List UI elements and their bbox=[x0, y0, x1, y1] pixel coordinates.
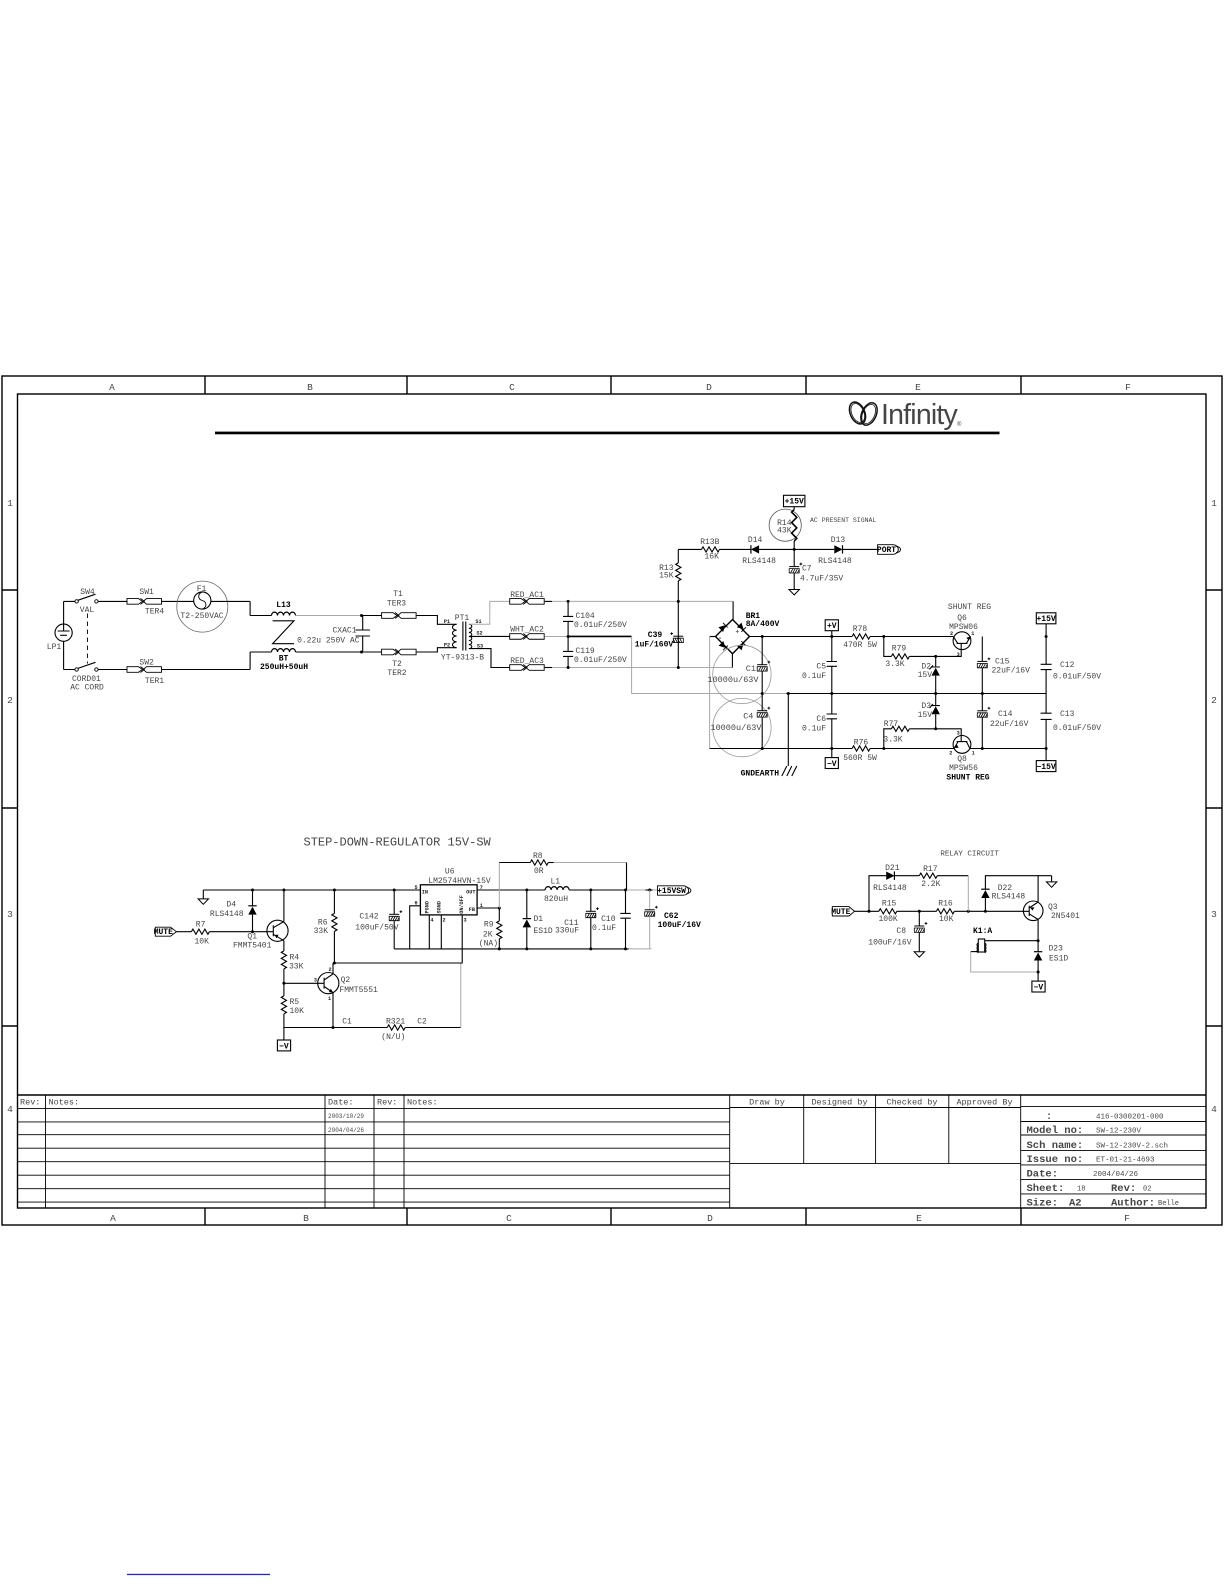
svg-text:Author:: Author: bbox=[1111, 1198, 1155, 1210]
svg-text:L1: L1 bbox=[550, 878, 560, 887]
svg-text:SW1: SW1 bbox=[139, 588, 154, 597]
svg-text:TER3: TER3 bbox=[387, 600, 406, 609]
diode D22 bbox=[981, 876, 1051, 912]
svg-text:R17: R17 bbox=[923, 865, 938, 874]
svg-text:D13: D13 bbox=[831, 536, 846, 545]
svg-text:Rev:: Rev: bbox=[20, 1098, 40, 1108]
svg-text:D14: D14 bbox=[748, 536, 763, 545]
svg-text:P1: P1 bbox=[444, 619, 450, 625]
svg-text:MUTE: MUTE bbox=[831, 908, 850, 917]
svg-text:MUTE: MUTE bbox=[154, 928, 173, 937]
svg-text:D2: D2 bbox=[921, 662, 931, 671]
svg-text:2: 2 bbox=[328, 967, 331, 973]
node D4 anode / R7 junction bbox=[251, 930, 254, 933]
column letters top bbox=[109, 382, 1131, 393]
svg-text:0.01uF/250V: 0.01uF/250V bbox=[574, 621, 627, 630]
IC U6 bbox=[414, 868, 490, 924]
svg-text:+: + bbox=[736, 629, 740, 636]
svg-text:(N/U): (N/U) bbox=[381, 1033, 405, 1042]
svg-text:Q2: Q2 bbox=[341, 976, 351, 985]
bridge BR1 bbox=[716, 612, 780, 654]
svg-text:3: 3 bbox=[957, 652, 960, 658]
svg-text:4: 4 bbox=[430, 918, 433, 924]
capacitor C39 bbox=[635, 631, 684, 650]
svg-text:3.3K: 3.3K bbox=[883, 736, 902, 745]
svg-text:B: B bbox=[307, 382, 313, 393]
terminal SW1 bbox=[127, 588, 164, 616]
transistor Q6 bbox=[936, 603, 992, 658]
ground bbox=[789, 590, 799, 595]
diode D21 bbox=[873, 864, 919, 893]
capacitor C11 bbox=[555, 890, 599, 949]
svg-text:16K: 16K bbox=[704, 552, 719, 561]
svg-text:2003/10/29: 2003/10/29 bbox=[328, 1113, 364, 1120]
bottom rail C1/C2 bbox=[284, 1027, 387, 1029]
svg-text:R7: R7 bbox=[196, 921, 206, 930]
svg-text:22uF/16V: 22uF/16V bbox=[990, 720, 1029, 729]
wire S1 tap bbox=[469, 601, 510, 624]
capacitor C14 bbox=[977, 694, 1028, 749]
svg-text:Date:: Date: bbox=[1027, 1169, 1059, 1181]
svg-text:Q3: Q3 bbox=[1048, 903, 1058, 912]
wire S2 tap bbox=[471, 635, 510, 637]
svg-text:+15V: +15V bbox=[785, 498, 804, 507]
port PORT flag bbox=[877, 545, 901, 555]
gnd return line bbox=[394, 948, 629, 950]
svg-text:0.22u 250V AC: 0.22u 250V AC bbox=[297, 637, 360, 646]
diode D14 bbox=[720, 536, 795, 566]
wire S3 tap bbox=[469, 649, 510, 668]
svg-text:®: ® bbox=[957, 421, 962, 428]
svg-text:2004/04/26: 2004/04/26 bbox=[1093, 1171, 1139, 1179]
wire ON/OFF net bbox=[334, 915, 462, 963]
svg-text:C1: C1 bbox=[342, 1018, 352, 1027]
wire FB net bbox=[477, 907, 499, 909]
svg-text:-: - bbox=[718, 635, 722, 643]
svg-text:R79: R79 bbox=[892, 644, 907, 653]
svg-text:U6: U6 bbox=[445, 868, 455, 877]
svg-text:RLS4148: RLS4148 bbox=[873, 884, 907, 893]
left row divider ticks bbox=[2, 590, 18, 1026]
svg-text:TER4: TER4 bbox=[145, 608, 164, 617]
svg-text:R4: R4 bbox=[290, 954, 300, 963]
svg-text:TER2: TER2 bbox=[387, 669, 406, 678]
choke core Z bbox=[273, 621, 294, 644]
svg-text:3: 3 bbox=[957, 731, 960, 737]
svg-text:100uF/16V: 100uF/16V bbox=[658, 921, 701, 930]
resistor R13 bbox=[659, 549, 681, 581]
svg-text:C7: C7 bbox=[802, 565, 812, 574]
svg-text:RED_AC3: RED_AC3 bbox=[510, 657, 544, 666]
svg-text:IN: IN bbox=[422, 889, 428, 895]
svg-text:VAL: VAL bbox=[80, 606, 95, 615]
svg-text:SW4: SW4 bbox=[80, 588, 95, 597]
svg-text:D: D bbox=[707, 1213, 713, 1224]
svg-text:Checked by: Checked by bbox=[886, 1098, 937, 1108]
resistor R7 bbox=[176, 921, 267, 947]
svg-text:Rev:: Rev: bbox=[377, 1098, 397, 1108]
title block info box bbox=[1021, 1106, 1206, 1209]
svg-text:SW2: SW2 bbox=[139, 659, 154, 668]
svg-text:2: 2 bbox=[949, 751, 952, 757]
gang dashed link bbox=[87, 614, 89, 664]
capacitor C13 bbox=[1041, 694, 1102, 749]
capacitor C10 bbox=[592, 890, 631, 949]
svg-text:OUT: OUT bbox=[466, 889, 475, 895]
resistor R76 bbox=[843, 739, 877, 763]
svg-text:RLS4148: RLS4148 bbox=[210, 910, 244, 919]
svg-text:STEP-DOWN-REGULATOR 15V-SW: STEP-DOWN-REGULATOR 15V-SW bbox=[304, 836, 492, 850]
wire AC3 rail bbox=[545, 667, 552, 669]
svg-text:C39: C39 bbox=[648, 631, 663, 640]
svg-text:F1: F1 bbox=[197, 585, 207, 594]
svg-text:15V: 15V bbox=[918, 711, 933, 720]
svg-text:560R 5W: 560R 5W bbox=[843, 754, 877, 763]
svg-text:P2: P2 bbox=[444, 643, 450, 649]
svg-text:−V: −V bbox=[279, 1042, 289, 1051]
svg-text:2: 2 bbox=[7, 695, 13, 706]
capacitor C12 bbox=[1041, 637, 1102, 694]
svg-text:R5: R5 bbox=[290, 998, 300, 1007]
svg-text:0.01uF/250V: 0.01uF/250V bbox=[574, 656, 627, 665]
svg-text:18: 18 bbox=[1077, 1186, 1085, 1194]
svg-text:Belle: Belle bbox=[1158, 1200, 1179, 1208]
capacitor C5 bbox=[802, 637, 837, 694]
resistor R77 bbox=[883, 720, 935, 748]
diode D23 bbox=[1034, 941, 1069, 981]
svg-text:C10: C10 bbox=[601, 915, 616, 924]
capacitor C104 bbox=[563, 600, 627, 637]
svg-text:FMMT5551: FMMT5551 bbox=[339, 986, 378, 995]
resistor R79 bbox=[884, 637, 936, 669]
wire AC1 rail bbox=[545, 600, 552, 602]
svg-text:+15V: +15V bbox=[1036, 615, 1055, 624]
column letters bottom bbox=[110, 1213, 1130, 1224]
transistor Q8 bbox=[936, 729, 990, 783]
svg-text::: : bbox=[1046, 1112, 1052, 1123]
svg-text:−V: −V bbox=[827, 760, 837, 769]
svg-text:MPSW06: MPSW06 bbox=[949, 623, 978, 632]
svg-text:LP1: LP1 bbox=[47, 643, 62, 652]
outer frame rect bbox=[2, 376, 1222, 1225]
row numbers right bbox=[1211, 498, 1217, 1115]
svg-text:3: 3 bbox=[7, 909, 13, 920]
svg-text:D23: D23 bbox=[1049, 945, 1064, 954]
terminal T1 bbox=[382, 590, 417, 619]
ground arrow relay bbox=[1046, 876, 1056, 888]
wire F1 right bbox=[211, 601, 272, 615]
svg-text:10K: 10K bbox=[939, 915, 954, 924]
zener D3 bbox=[918, 694, 940, 731]
resistor R17 bbox=[919, 865, 968, 889]
power box +V bbox=[825, 620, 838, 637]
+V rail bbox=[750, 636, 954, 638]
svg-text:PT1: PT1 bbox=[455, 614, 470, 623]
svg-text:ES1D: ES1D bbox=[534, 927, 553, 936]
resistor R9 bbox=[479, 908, 502, 949]
svg-text:F: F bbox=[1125, 382, 1131, 393]
svg-text:ON/OFF: ON/OFF bbox=[459, 895, 465, 914]
svg-text:Sheet:: Sheet: bbox=[1027, 1183, 1065, 1195]
power box -15V bbox=[1036, 747, 1056, 772]
svg-text:8A/400V: 8A/400V bbox=[746, 620, 780, 629]
svg-text:0.1uF: 0.1uF bbox=[802, 725, 826, 734]
svg-text:15V: 15V bbox=[918, 671, 933, 680]
svg-text:R77: R77 bbox=[884, 720, 899, 729]
svg-text:C4: C4 bbox=[743, 712, 753, 722]
svg-text:Model no:: Model no: bbox=[1027, 1125, 1084, 1137]
relay coil K1:A bbox=[973, 927, 992, 953]
top rail bbox=[203, 889, 420, 891]
wire to Q2 base bbox=[284, 982, 318, 984]
capacitor C6 bbox=[802, 694, 837, 749]
thick rule under logo bbox=[215, 432, 1000, 435]
svg-text:PORT: PORT bbox=[877, 546, 896, 555]
zener D2 bbox=[918, 655, 940, 694]
switch CORD01 bbox=[70, 662, 104, 692]
svg-text:A2: A2 bbox=[1069, 1198, 1082, 1210]
svg-text:5: 5 bbox=[414, 885, 417, 891]
svg-text:R78: R78 bbox=[853, 625, 868, 634]
svg-text:10000u/63V: 10000u/63V bbox=[710, 723, 762, 733]
svg-text:1: 1 bbox=[972, 751, 975, 757]
svg-text:1: 1 bbox=[7, 498, 13, 509]
inductor L1 bbox=[544, 878, 569, 904]
svg-text:C5: C5 bbox=[816, 663, 826, 672]
svg-text:Q6: Q6 bbox=[957, 614, 967, 623]
svg-text:Issue no:: Issue no: bbox=[1027, 1154, 1084, 1166]
wire mute line bbox=[855, 910, 1024, 912]
wire bridge minus leg bbox=[710, 636, 716, 638]
wire L13 to T1 bbox=[296, 615, 362, 617]
svg-text:SW-12-230V: SW-12-230V bbox=[1096, 1128, 1142, 1136]
svg-text:FMMT5401: FMMT5401 bbox=[233, 942, 272, 951]
svg-text:−V: −V bbox=[1034, 983, 1044, 992]
wire AC2 bbox=[545, 635, 568, 637]
svg-text:B: B bbox=[303, 1213, 309, 1224]
svg-text:2K: 2K bbox=[483, 930, 493, 939]
Infinity logo mark bbox=[846, 400, 880, 428]
svg-text:2004/04/26: 2004/04/26 bbox=[328, 1127, 364, 1134]
svg-text:TER1: TER1 bbox=[145, 677, 164, 686]
svg-text:2: 2 bbox=[442, 918, 445, 924]
svg-text:SHUNT REG: SHUNT REG bbox=[948, 603, 991, 612]
svg-text:250uH+50uH: 250uH+50uH bbox=[260, 663, 308, 672]
svg-text:33K: 33K bbox=[314, 927, 329, 936]
svg-text:470R 5W: 470R 5W bbox=[843, 641, 877, 650]
terminal T2 bbox=[382, 649, 417, 678]
svg-text:GNDEARTH: GNDEARTH bbox=[741, 770, 780, 779]
wire AC1 into bridge bbox=[732, 601, 734, 619]
svg-text:10000u/63V: 10000u/63V bbox=[707, 675, 759, 685]
svg-text:1: 1 bbox=[1211, 498, 1217, 509]
bottom rail bbox=[710, 748, 1047, 750]
svg-text:10K: 10K bbox=[194, 937, 209, 946]
svg-text:K1:A: K1:A bbox=[973, 927, 992, 936]
svg-text:C104: C104 bbox=[576, 612, 595, 621]
svg-text:A: A bbox=[109, 382, 115, 393]
svg-text:Q8: Q8 bbox=[957, 755, 967, 764]
svg-text:Notes:: Notes: bbox=[49, 1098, 80, 1108]
capacitor C4 bbox=[710, 694, 771, 757]
svg-text:0.01uF/50V: 0.01uF/50V bbox=[1053, 673, 1101, 682]
wire coil return gray bbox=[971, 951, 979, 953]
drawing border frame bbox=[2, 376, 1222, 1225]
svg-text:C2: C2 bbox=[417, 1018, 427, 1027]
svg-text:C: C bbox=[506, 1213, 512, 1224]
resistor R14 bbox=[769, 507, 801, 550]
top column divider ticks bbox=[205, 376, 1021, 394]
svg-text:RED_AC1: RED_AC1 bbox=[510, 591, 544, 600]
svg-text:+15VSW: +15VSW bbox=[657, 887, 686, 896]
mid rail bbox=[632, 636, 787, 693]
svg-text:Notes:: Notes: bbox=[407, 1098, 438, 1108]
node junction signal bbox=[793, 548, 796, 551]
svg-text:D4: D4 bbox=[226, 901, 236, 910]
svg-text:416-0300201-000: 416-0300201-000 bbox=[1096, 1114, 1164, 1122]
+15V power box bbox=[784, 495, 805, 506]
ground GNDEARTH bbox=[741, 694, 797, 779]
capacitor C7 bbox=[789, 549, 843, 589]
svg-text:R15: R15 bbox=[882, 899, 897, 908]
svg-text:Q1: Q1 bbox=[247, 933, 257, 942]
svg-text:R16: R16 bbox=[938, 899, 953, 908]
svg-text:AC CORD: AC CORD bbox=[70, 683, 104, 692]
svg-text:BT: BT bbox=[279, 654, 289, 663]
fuse F1 bbox=[177, 581, 228, 632]
inner frame rect bbox=[18, 394, 1207, 1208]
svg-text:C119: C119 bbox=[576, 647, 595, 656]
resistor R5 bbox=[281, 983, 304, 1027]
svg-text:22uF/16V: 22uF/16V bbox=[992, 667, 1031, 676]
svg-text:4.7uF/35V: 4.7uF/35V bbox=[800, 574, 843, 583]
svg-text:RLS4148: RLS4148 bbox=[992, 892, 1026, 901]
wire SW4 to SW1 bbox=[98, 600, 127, 602]
transistor Q1 bbox=[233, 890, 288, 951]
resistor R321 bbox=[342, 1018, 461, 1042]
svg-text:C13: C13 bbox=[1060, 710, 1075, 719]
svg-text:C: C bbox=[509, 382, 515, 393]
svg-text:T1: T1 bbox=[393, 590, 403, 599]
svg-text:02: 02 bbox=[1143, 1186, 1151, 1194]
svg-text:L13: L13 bbox=[276, 601, 291, 610]
svg-text:1: 1 bbox=[328, 996, 331, 1002]
inductor BT bbox=[260, 649, 308, 672]
svg-text:1uF/160V: 1uF/160V bbox=[635, 640, 674, 649]
capacitor C8 bbox=[868, 911, 927, 957]
diode D1 bbox=[523, 890, 553, 949]
svg-text:E: E bbox=[916, 1213, 922, 1224]
capacitor C62 bbox=[645, 890, 701, 949]
svg-text:C142: C142 bbox=[359, 913, 378, 922]
capacitor C142 bbox=[355, 890, 402, 949]
svg-text:−15V: −15V bbox=[1036, 763, 1055, 772]
resistor R78 bbox=[843, 625, 877, 650]
svg-text:3: 3 bbox=[463, 918, 466, 924]
svg-text:Rev:: Rev: bbox=[1111, 1183, 1136, 1195]
svg-text:RLS4148: RLS4148 bbox=[818, 557, 852, 566]
svg-text:YT-9313-B: YT-9313-B bbox=[441, 654, 484, 663]
resistor R6 bbox=[314, 890, 337, 963]
svg-text:WHT_AC2: WHT_AC2 bbox=[510, 626, 544, 635]
row numbers left bbox=[7, 498, 13, 1115]
svg-text:D1: D1 bbox=[534, 915, 544, 924]
svg-text:R76: R76 bbox=[854, 739, 869, 748]
capacitor C119 bbox=[563, 635, 627, 669]
title block left revision table bbox=[18, 1095, 1207, 1208]
svg-text:FB: FB bbox=[469, 907, 475, 913]
svg-text:RELAY CIRCUIT: RELAY CIRCUIT bbox=[940, 851, 999, 859]
svg-text:C12: C12 bbox=[1060, 661, 1075, 670]
wire collector node bbox=[1037, 939, 1040, 942]
resistor R4 bbox=[281, 951, 303, 983]
port MUTE flag bbox=[831, 907, 854, 917]
switch SW4 bbox=[75, 588, 98, 615]
resistor R16 bbox=[936, 899, 954, 924]
svg-text:C14: C14 bbox=[998, 710, 1013, 719]
svg-text:4: 4 bbox=[7, 1104, 13, 1115]
power box +15V bbox=[1036, 613, 1056, 638]
svg-text:820uH: 820uH bbox=[544, 895, 568, 904]
port +15VSW flag bbox=[657, 886, 691, 896]
svg-text:C8: C8 bbox=[896, 927, 906, 936]
svg-text:Sch name:: Sch name: bbox=[1027, 1140, 1084, 1152]
svg-text:C15: C15 bbox=[995, 658, 1010, 667]
inductor L13 bbox=[272, 601, 296, 616]
transistor Q3 bbox=[1023, 876, 1080, 941]
svg-text:CXAC1: CXAC1 bbox=[332, 626, 356, 635]
svg-text:3.3K: 3.3K bbox=[885, 660, 904, 669]
diode D4 bbox=[210, 890, 257, 932]
lamp LP1 bbox=[47, 624, 72, 652]
svg-text:+V: +V bbox=[827, 622, 837, 631]
svg-text:D3: D3 bbox=[921, 702, 931, 711]
svg-text:100uF/16V: 100uF/16V bbox=[868, 938, 911, 947]
svg-text:0.1uF: 0.1uF bbox=[802, 672, 826, 681]
wire D21 branch up bbox=[869, 876, 886, 912]
wire BT to T2 bbox=[296, 651, 382, 653]
resistor R15 bbox=[878, 899, 897, 924]
svg-text:100uF/50V: 100uF/50V bbox=[355, 924, 398, 933]
svg-text:S2: S2 bbox=[476, 631, 482, 637]
port MUTE flag bbox=[154, 927, 177, 937]
svg-text:Date:: Date: bbox=[328, 1098, 354, 1108]
transistor Q2 bbox=[314, 963, 378, 1028]
svg-text:Size:: Size: bbox=[1027, 1198, 1059, 1210]
bottom column divider ticks bbox=[205, 1208, 1021, 1225]
svg-text:T2-250VAC: T2-250VAC bbox=[180, 612, 223, 621]
capacitor CXAC1 bbox=[297, 616, 370, 653]
svg-text:ET-01-21-4693: ET-01-21-4693 bbox=[1096, 1157, 1155, 1165]
svg-text:SGND: SGND bbox=[437, 901, 443, 913]
svg-text:SHUNT REG: SHUNT REG bbox=[946, 774, 989, 783]
svg-text:0R: 0R bbox=[534, 867, 544, 876]
node junctions CXAC1 bbox=[360, 614, 363, 617]
right row divider ticks bbox=[1206, 590, 1222, 1026]
svg-text:R13B: R13B bbox=[700, 538, 719, 547]
svg-text:Approved By: Approved By bbox=[956, 1098, 1012, 1108]
wire SW2 to BT bbox=[98, 669, 127, 671]
svg-text:4: 4 bbox=[1211, 1104, 1217, 1115]
svg-text:F: F bbox=[1124, 1213, 1130, 1224]
title block signature table bbox=[730, 1095, 1021, 1208]
power box -V bbox=[277, 1028, 290, 1052]
svg-text:C1: C1 bbox=[746, 664, 756, 674]
svg-text:0.1uF: 0.1uF bbox=[592, 924, 616, 933]
wire AC3 into bridge bbox=[731, 654, 733, 668]
capacitor C1 bbox=[707, 637, 771, 704]
svg-text:PGND: PGND bbox=[425, 901, 431, 913]
